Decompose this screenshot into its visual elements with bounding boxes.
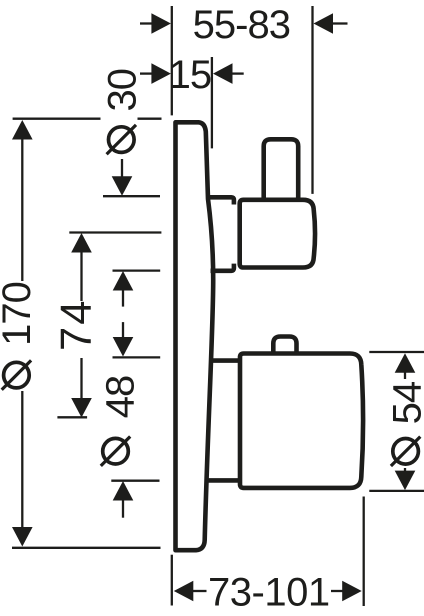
55-83 left: [151, 13, 171, 34]
dimension 15: [140, 72, 153, 74]
15 left: [151, 63, 171, 84]
svg-text:73-101: 73-101: [208, 571, 330, 615]
Ø54 top: [395, 353, 416, 373]
diameter symbol of label Ø48: [101, 437, 130, 466]
lower valve sleeve bottom line: [207, 478, 241, 483]
Ø30 arrow stem: [121, 159, 123, 178]
svg-text:30: 30: [101, 69, 145, 112]
Ø54 dimension line: [404, 372, 406, 379]
extension line: 55-83 right (handle front): [311, 6, 313, 194]
15 right: [213, 63, 233, 84]
lower handle top knob: [273, 337, 296, 353]
Ø48 refs and arrows: [113, 269, 161, 271]
Ø54 bottom: [395, 471, 416, 491]
dimension 55-83: [140, 22, 153, 24]
extension line: wall/plate face left (55-83 and 15): [171, 6, 173, 115]
73-101 left: [174, 581, 194, 602]
Ø170 dimension line: [21, 139, 23, 281]
upper handle stem: [264, 139, 299, 199]
upper handle body: [240, 200, 315, 268]
diameter symbol of label Ø30: [107, 125, 136, 154]
lower handle body: [240, 354, 363, 488]
Ø54 extension lines: [369, 351, 424, 353]
74 bottom: [71, 398, 92, 418]
Ø170 bottom ref line: [12, 547, 161, 549]
diameter symbol of label Ø54: [391, 437, 420, 466]
svg-text:15: 15: [169, 53, 212, 97]
lower valve sleeve top line: [210, 358, 240, 363]
74 top: [71, 233, 92, 253]
svg-text:48: 48: [99, 376, 143, 419]
73-101 dimension line: [193, 590, 207, 592]
73-101 right: [342, 581, 362, 602]
ref line top (Ø170 / Ø30): [13, 118, 101, 120]
74 dimension: [69, 231, 161, 233]
svg-text:170: 170: [0, 282, 39, 346]
Ø48 down (at 356.5): [113, 337, 134, 357]
Ø30 down arrow: [112, 176, 133, 196]
73-101 extension lines: [171, 555, 173, 606]
svg-text:74: 74: [53, 299, 101, 351]
Ø170 top: [12, 120, 33, 140]
extension line: 15 right: [211, 57, 213, 148]
upper valve sleeve bottom line: [211, 264, 234, 271]
diameter symbol of label Ø170: [2, 360, 31, 389]
svg-text:54: 54: [386, 381, 424, 424]
escutcheon plate (side profile): [176, 122, 214, 550]
ref line Ø30 bottom: [103, 195, 160, 197]
55-83 right: [314, 13, 334, 34]
Ø170 bottom: [12, 527, 33, 547]
upper valve sleeve top line: [208, 197, 234, 204]
Ø48 up (at 271): [113, 271, 134, 291]
Ø48 up (at 481): [113, 481, 134, 501]
svg-text:55-83: 55-83: [193, 3, 290, 47]
